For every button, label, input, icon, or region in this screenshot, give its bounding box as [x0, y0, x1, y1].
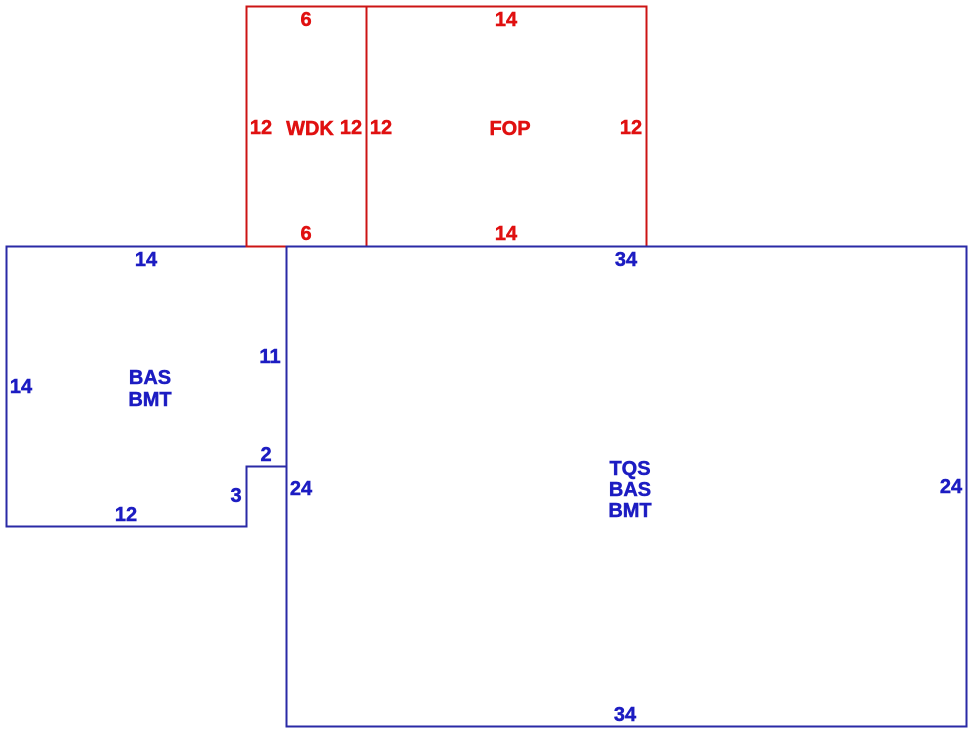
svg-text:14: 14 [135, 249, 158, 271]
svg-text:24: 24 [290, 478, 313, 500]
svg-text:11: 11 [259, 346, 280, 368]
svg-text:FOP: FOP [489, 118, 530, 140]
svg-text:24: 24 [940, 476, 963, 498]
svg-text:12: 12 [250, 117, 272, 139]
svg-text:14: 14 [495, 223, 518, 245]
svg-text:14: 14 [10, 376, 33, 398]
svg-text:34: 34 [614, 704, 637, 726]
svg-text:BAS: BAS [129, 367, 171, 389]
svg-text:12: 12 [115, 504, 137, 526]
svg-text:BMT: BMT [128, 389, 171, 411]
svg-text:12: 12 [370, 117, 392, 139]
svg-text:12: 12 [620, 117, 642, 139]
svg-text:14: 14 [495, 9, 518, 31]
svg-text:BMT: BMT [608, 500, 651, 522]
svg-text:BAS: BAS [609, 479, 651, 501]
FOP open porch outline (red rectangle) [367, 7, 647, 247]
svg-text:6: 6 [300, 223, 311, 245]
svg-text:3: 3 [230, 485, 241, 507]
svg-text:TQS: TQS [609, 458, 650, 480]
svg-text:6: 6 [300, 9, 311, 31]
svg-text:34: 34 [615, 249, 638, 271]
BAS BMT basement area outline (blue polygon with step notch) [7, 247, 287, 527]
TQS BAS BMT area outline (blue rectangle) [287, 247, 967, 727]
svg-text:12: 12 [340, 117, 362, 139]
svg-text:2: 2 [260, 444, 271, 466]
svg-text:WDK: WDK [286, 118, 334, 140]
WDK wood deck outline (red rectangle) [247, 7, 367, 247]
